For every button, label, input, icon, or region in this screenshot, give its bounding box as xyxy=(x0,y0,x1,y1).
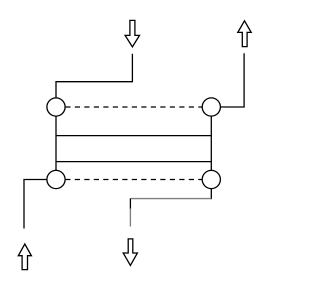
wire gray horizontal segment to bottom outlet arrow xyxy=(131,198,211,200)
dashed tube line top xyxy=(65,106,202,108)
node B (top-right port) xyxy=(202,98,220,116)
right tube rail between node B and node D xyxy=(210,107,212,180)
wire from node D down (black segment) xyxy=(210,180,212,200)
node C (bottom-left port) xyxy=(47,170,65,188)
stream arrow bottom-left outlet (up) xyxy=(18,244,31,270)
dashed tube line bottom xyxy=(65,179,202,181)
node A (top-left port) xyxy=(47,98,65,116)
left tube rail between node A and node C xyxy=(55,107,57,180)
wire from node C to bottom-left outlet arrow xyxy=(24,180,56,229)
wire gray vertical segment to bottom outlet arrow xyxy=(129,209,131,227)
wire from top inlet arrow to node A xyxy=(56,54,132,107)
stream arrow top inlet (down) xyxy=(125,20,139,47)
stream arrow bottom outlet (down) xyxy=(123,239,137,266)
wire from node B to top outlet arrow xyxy=(211,53,244,107)
shell bottom line xyxy=(56,161,211,163)
shell top line xyxy=(56,135,211,137)
stream arrow top-right outlet (up) xyxy=(238,21,251,47)
node D (bottom-right port) xyxy=(202,170,220,188)
wire corner black segment at bottom outlet xyxy=(129,198,131,208)
